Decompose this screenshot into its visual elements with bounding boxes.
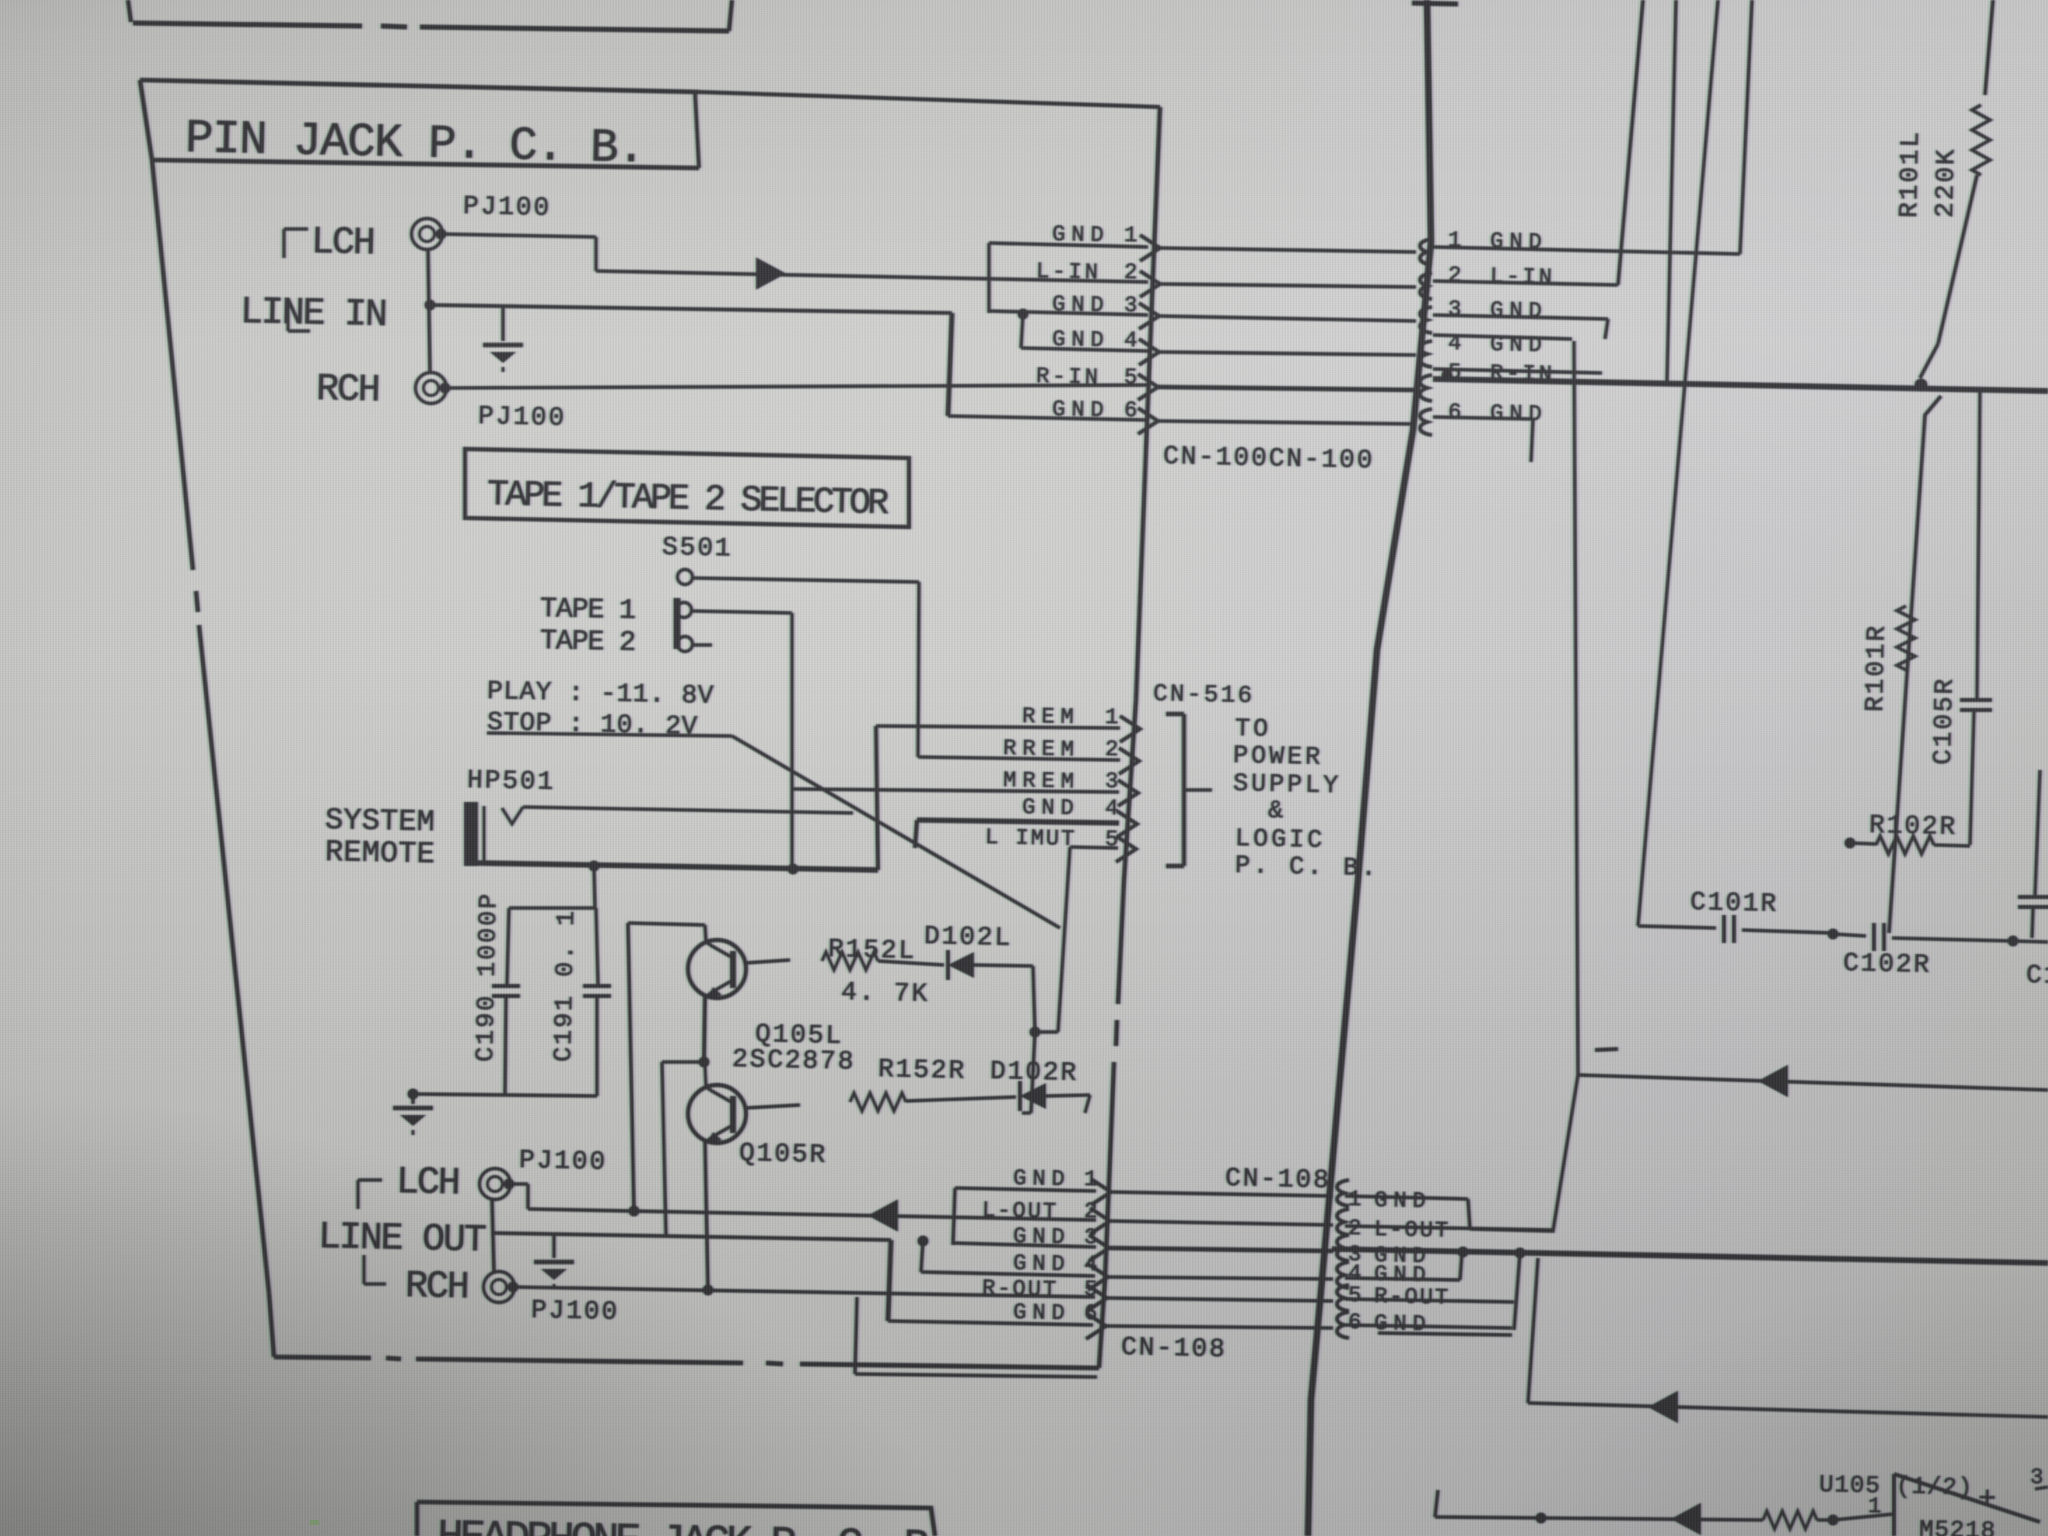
green pixel artifact: [310, 1520, 319, 1525]
